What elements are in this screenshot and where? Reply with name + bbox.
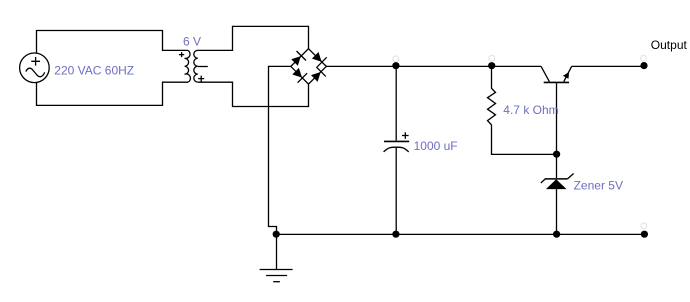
svg-text:6 V: 6 V — [183, 35, 201, 49]
svg-text:Output: Output — [651, 38, 688, 52]
svg-text:220 VAC 60HZ: 220 VAC 60HZ — [54, 63, 134, 77]
svg-text:4.7 k Ohm: 4.7 k Ohm — [503, 103, 558, 117]
svg-text:1000 uF: 1000 uF — [414, 139, 458, 153]
svg-text:Zener 5V: Zener 5V — [574, 179, 623, 193]
